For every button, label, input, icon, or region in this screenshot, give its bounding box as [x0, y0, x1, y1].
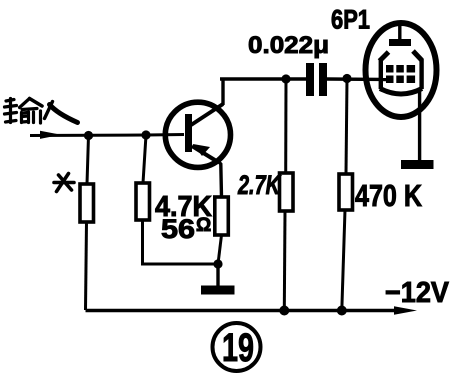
tube V1 plate lead	[398, 22, 401, 42]
tube V1 beam plate right side	[419, 59, 423, 89]
ground: tube cathode	[401, 160, 434, 169]
wire: R-4.7K top lead	[143, 135, 146, 183]
wire: ground stem	[216, 264, 219, 286]
input label 输入	[5, 99, 78, 124]
tube V1 cathode arc	[380, 89, 422, 95]
wire: top rail (collector to capacitor)	[220, 77, 306, 80]
transistor Q1 base bar	[185, 114, 192, 152]
node: top rail / R-2.7K junction	[281, 74, 290, 83]
node: bottom rail / 470K junction	[337, 306, 347, 316]
wire: R-2.7K bottom lead	[283, 211, 287, 311]
arrowhead: -12V supply	[394, 306, 417, 315]
transistor Q1 collector stroke	[191, 104, 223, 125]
tube V1 grid dashes row 2	[386, 76, 415, 84]
svg-text:Ω: Ω	[196, 215, 211, 236]
wire: bottom supply rail	[86, 309, 399, 313]
resistor R 470K	[339, 174, 353, 210]
capacitor C 0.022u right plate	[319, 63, 327, 96]
wire: R-4.7K bottom lead to emitter node	[143, 220, 219, 264]
label * (starred resistor)	[54, 174, 74, 192]
svg-text:470 K: 470 K	[355, 178, 422, 213]
node: emitter / 4.7K / ground junction	[213, 259, 222, 268]
node: bottom rail / 2.7K junction	[279, 306, 289, 316]
wire: R-470K top lead	[346, 79, 347, 175]
capacitor C 0.022u left plate	[306, 63, 314, 96]
node: input / R-4.7K junction	[141, 130, 150, 139]
wire: R-2.7K top lead	[284, 79, 287, 173]
wire: cathode lead down	[418, 91, 421, 161]
tube V1 beam plate left side	[379, 60, 383, 89]
resistor R 2.7K	[280, 173, 294, 211]
resistor R 4.7K	[136, 183, 150, 220]
svg-text:0.022μ: 0.022μ	[248, 32, 329, 59]
svg-text:19: 19	[222, 326, 254, 370]
resistor R 56Ω (emitter)	[215, 197, 229, 235]
wire: emitter resistor top lead	[218, 161, 222, 197]
svg-text:6P1: 6P1	[331, 5, 370, 35]
input wire	[30, 134, 146, 138]
wire: capacitor to tube grid	[327, 77, 386, 81]
ground: emitter	[201, 286, 235, 295]
node: input / R* junction	[84, 131, 93, 140]
tube V1 beam plate left shoulder	[380, 52, 389, 61]
wire: R* bottom lead	[86, 222, 87, 310]
svg-text:56: 56	[161, 214, 195, 244]
wire: emitter resistor bottom lead	[218, 235, 222, 264]
transistor Q1 emitter arrow (PNP, points to base)	[193, 144, 210, 156]
transistor Q1 circle	[165, 102, 230, 167]
node: grid rail / R-470K junction	[342, 74, 351, 83]
input arrowhead	[40, 131, 61, 139]
resistor R*	[80, 184, 94, 222]
tube V1 plate bar	[389, 39, 411, 46]
transistor Q1 emitter stroke	[192, 146, 218, 162]
wire: R-470K bottom lead	[342, 210, 345, 311]
tube V1 envelope	[366, 23, 437, 117]
figure number circle 19	[213, 323, 261, 371]
wire: base lead	[146, 133, 184, 137]
tube V1 beam plate right shoulder	[413, 51, 422, 61]
svg-text:2.7K: 2.7K	[237, 170, 282, 200]
tube V1 grid dashes row 1	[386, 65, 415, 73]
svg-text:−12V: −12V	[385, 277, 450, 309]
wire: R* top lead	[87, 136, 89, 185]
wire: collector up to top rail	[221, 79, 224, 105]
